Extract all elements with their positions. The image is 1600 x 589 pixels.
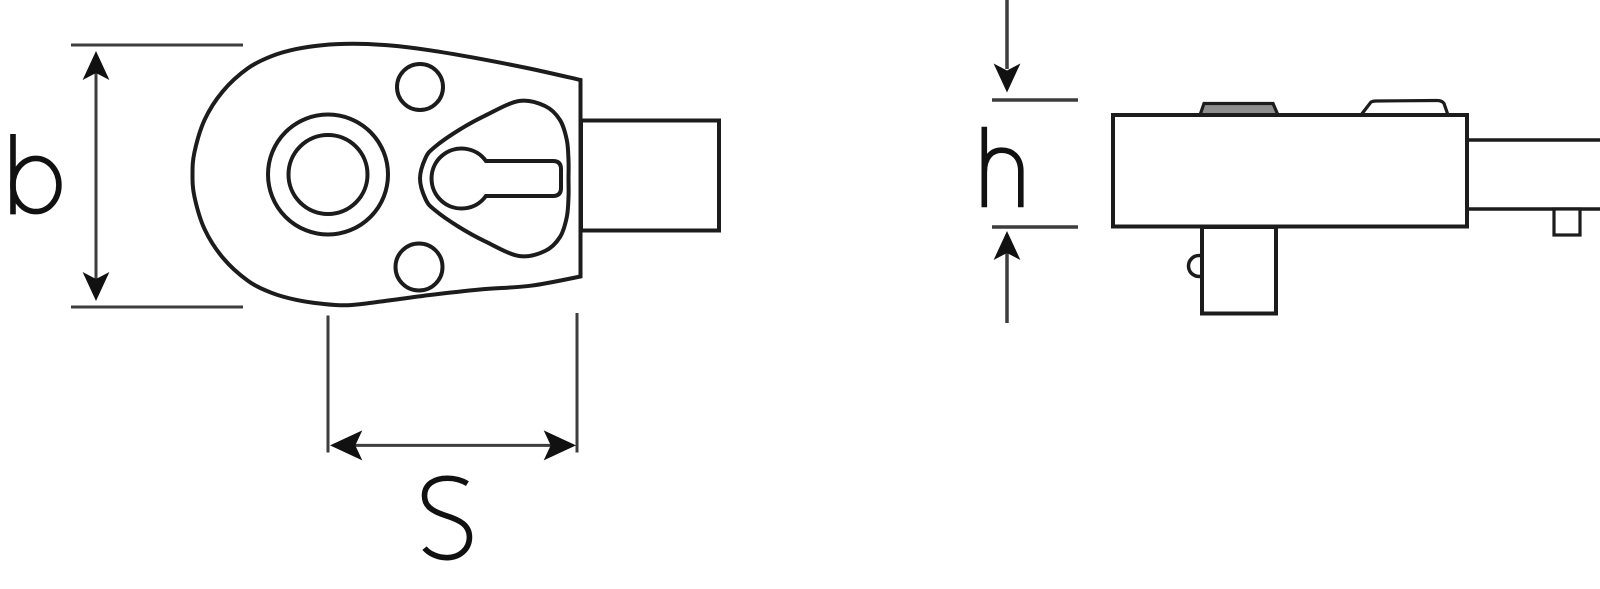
- b dimension line: [95, 55, 98, 297]
- S extension line left: [327, 316, 330, 453]
- pin hole bottom: [396, 244, 443, 291]
- label S: [425, 478, 470, 557]
- tang (side view, cut at right edge): [1467, 140, 1600, 209]
- h extension line lower: [992, 225, 1078, 229]
- b extension line top: [71, 44, 243, 47]
- main bar: [1113, 115, 1467, 227]
- ratchet head outline (top view): [193, 44, 581, 305]
- small square under tang: [1554, 209, 1580, 235]
- S arrow right: [544, 430, 576, 460]
- label h: [984, 127, 1021, 207]
- b extension line bottom: [71, 306, 243, 309]
- S arrow left: [330, 430, 362, 460]
- h arrow up: [994, 231, 1021, 260]
- clip tab 1 (gray filled): [1200, 104, 1278, 116]
- h leader line top: [1005, 0, 1009, 69]
- square drive (side view): [1202, 227, 1276, 314]
- h extension line upper: [992, 98, 1078, 102]
- S dimension line: [333, 444, 573, 447]
- S extension line right: [576, 313, 579, 453]
- clip tab 2: [1361, 101, 1448, 116]
- h arrow down: [994, 64, 1021, 93]
- pin hole top: [397, 64, 443, 110]
- h leader line bottom: [1005, 236, 1009, 323]
- ratchet drive inner circle: [289, 135, 368, 214]
- lever plate (guitar-pick shape): [420, 101, 569, 257]
- ratchet drive outer circle: [268, 115, 388, 235]
- b arrow up: [83, 51, 110, 80]
- b arrow down: [83, 272, 110, 301]
- square drive tang (top view, right of head): [581, 121, 719, 231]
- detent ball: [1189, 256, 1210, 277]
- label b: [13, 134, 59, 214]
- keyhole slot: [432, 149, 561, 209]
